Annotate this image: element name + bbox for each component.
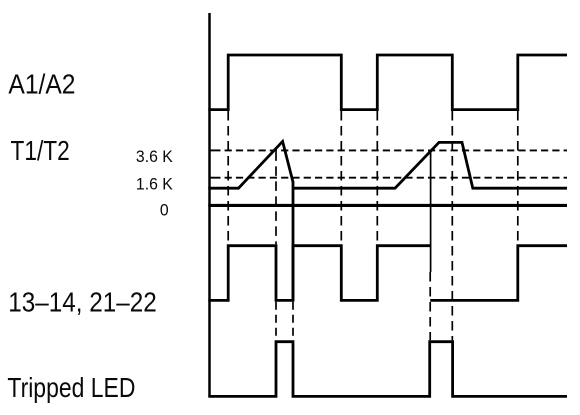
svg-text:0: 0 — [160, 201, 169, 220]
thin solid guide at trip point 2 crossing 3.6 K — [430, 150, 432, 272]
A1/A2 supply waveform — [208, 55, 567, 110]
T1/T2 thermistor resistance trace with first peak and trip drop — [208, 141, 293, 300]
label 1.6 K — [136, 175, 173, 194]
dashed guide at supply off edge 1 — [340, 111, 342, 244]
label 3.6 K — [136, 148, 173, 167]
dashed guide from contacts to LED pulse 1 right — [292, 302, 294, 341]
svg-text:3.6 K: 3.6 K — [136, 148, 173, 167]
svg-text:13–14, 21–22: 13–14, 21–22 — [8, 286, 156, 318]
3.6 K threshold dashed line — [210, 149, 221, 151]
dashed guide at supply on edge 3 — [517, 111, 519, 244]
label 0 — [160, 201, 169, 220]
svg-text:Tripped LED: Tripped LED — [7, 373, 135, 404]
svg-text:T1/T2: T1/T2 — [11, 136, 70, 167]
label A1/A2 — [8, 68, 75, 100]
T1/T2 trace after reset with second peak — [293, 142, 567, 188]
label Tripped LED — [7, 373, 135, 404]
dashed guide at trip point 1 crossing 3.6 K — [275, 151, 277, 244]
dashed guide at supply on edge 1 — [227, 111, 229, 244]
svg-text:A1/A2: A1/A2 — [8, 68, 75, 100]
dashed guide at supply off edge 2 down to LED pulse 2 right — [451, 111, 453, 340]
label T1/T2 — [11, 136, 70, 167]
label 13-14, 21-22 — [8, 286, 156, 318]
Tripped LED waveform with two on-pulses — [208, 342, 567, 397]
13-14, 21-22 contact waveform continued (open during trip 2 and off phase) — [430, 246, 567, 301]
1.6 K threshold dashed line — [210, 177, 221, 179]
time axis — [208, 13, 211, 396]
svg-text:1.6 K: 1.6 K — [136, 175, 173, 194]
dashed guide at supply on edge 2 — [376, 111, 378, 244]
13-14, 21-22 contact waveform — [208, 246, 430, 301]
0 reference line — [208, 204, 567, 207]
dashed guide from contacts to LED pulse 1 left — [275, 302, 277, 341]
dashed guide at trip point 2 down to LED pulse 2 left — [429, 272, 431, 340]
